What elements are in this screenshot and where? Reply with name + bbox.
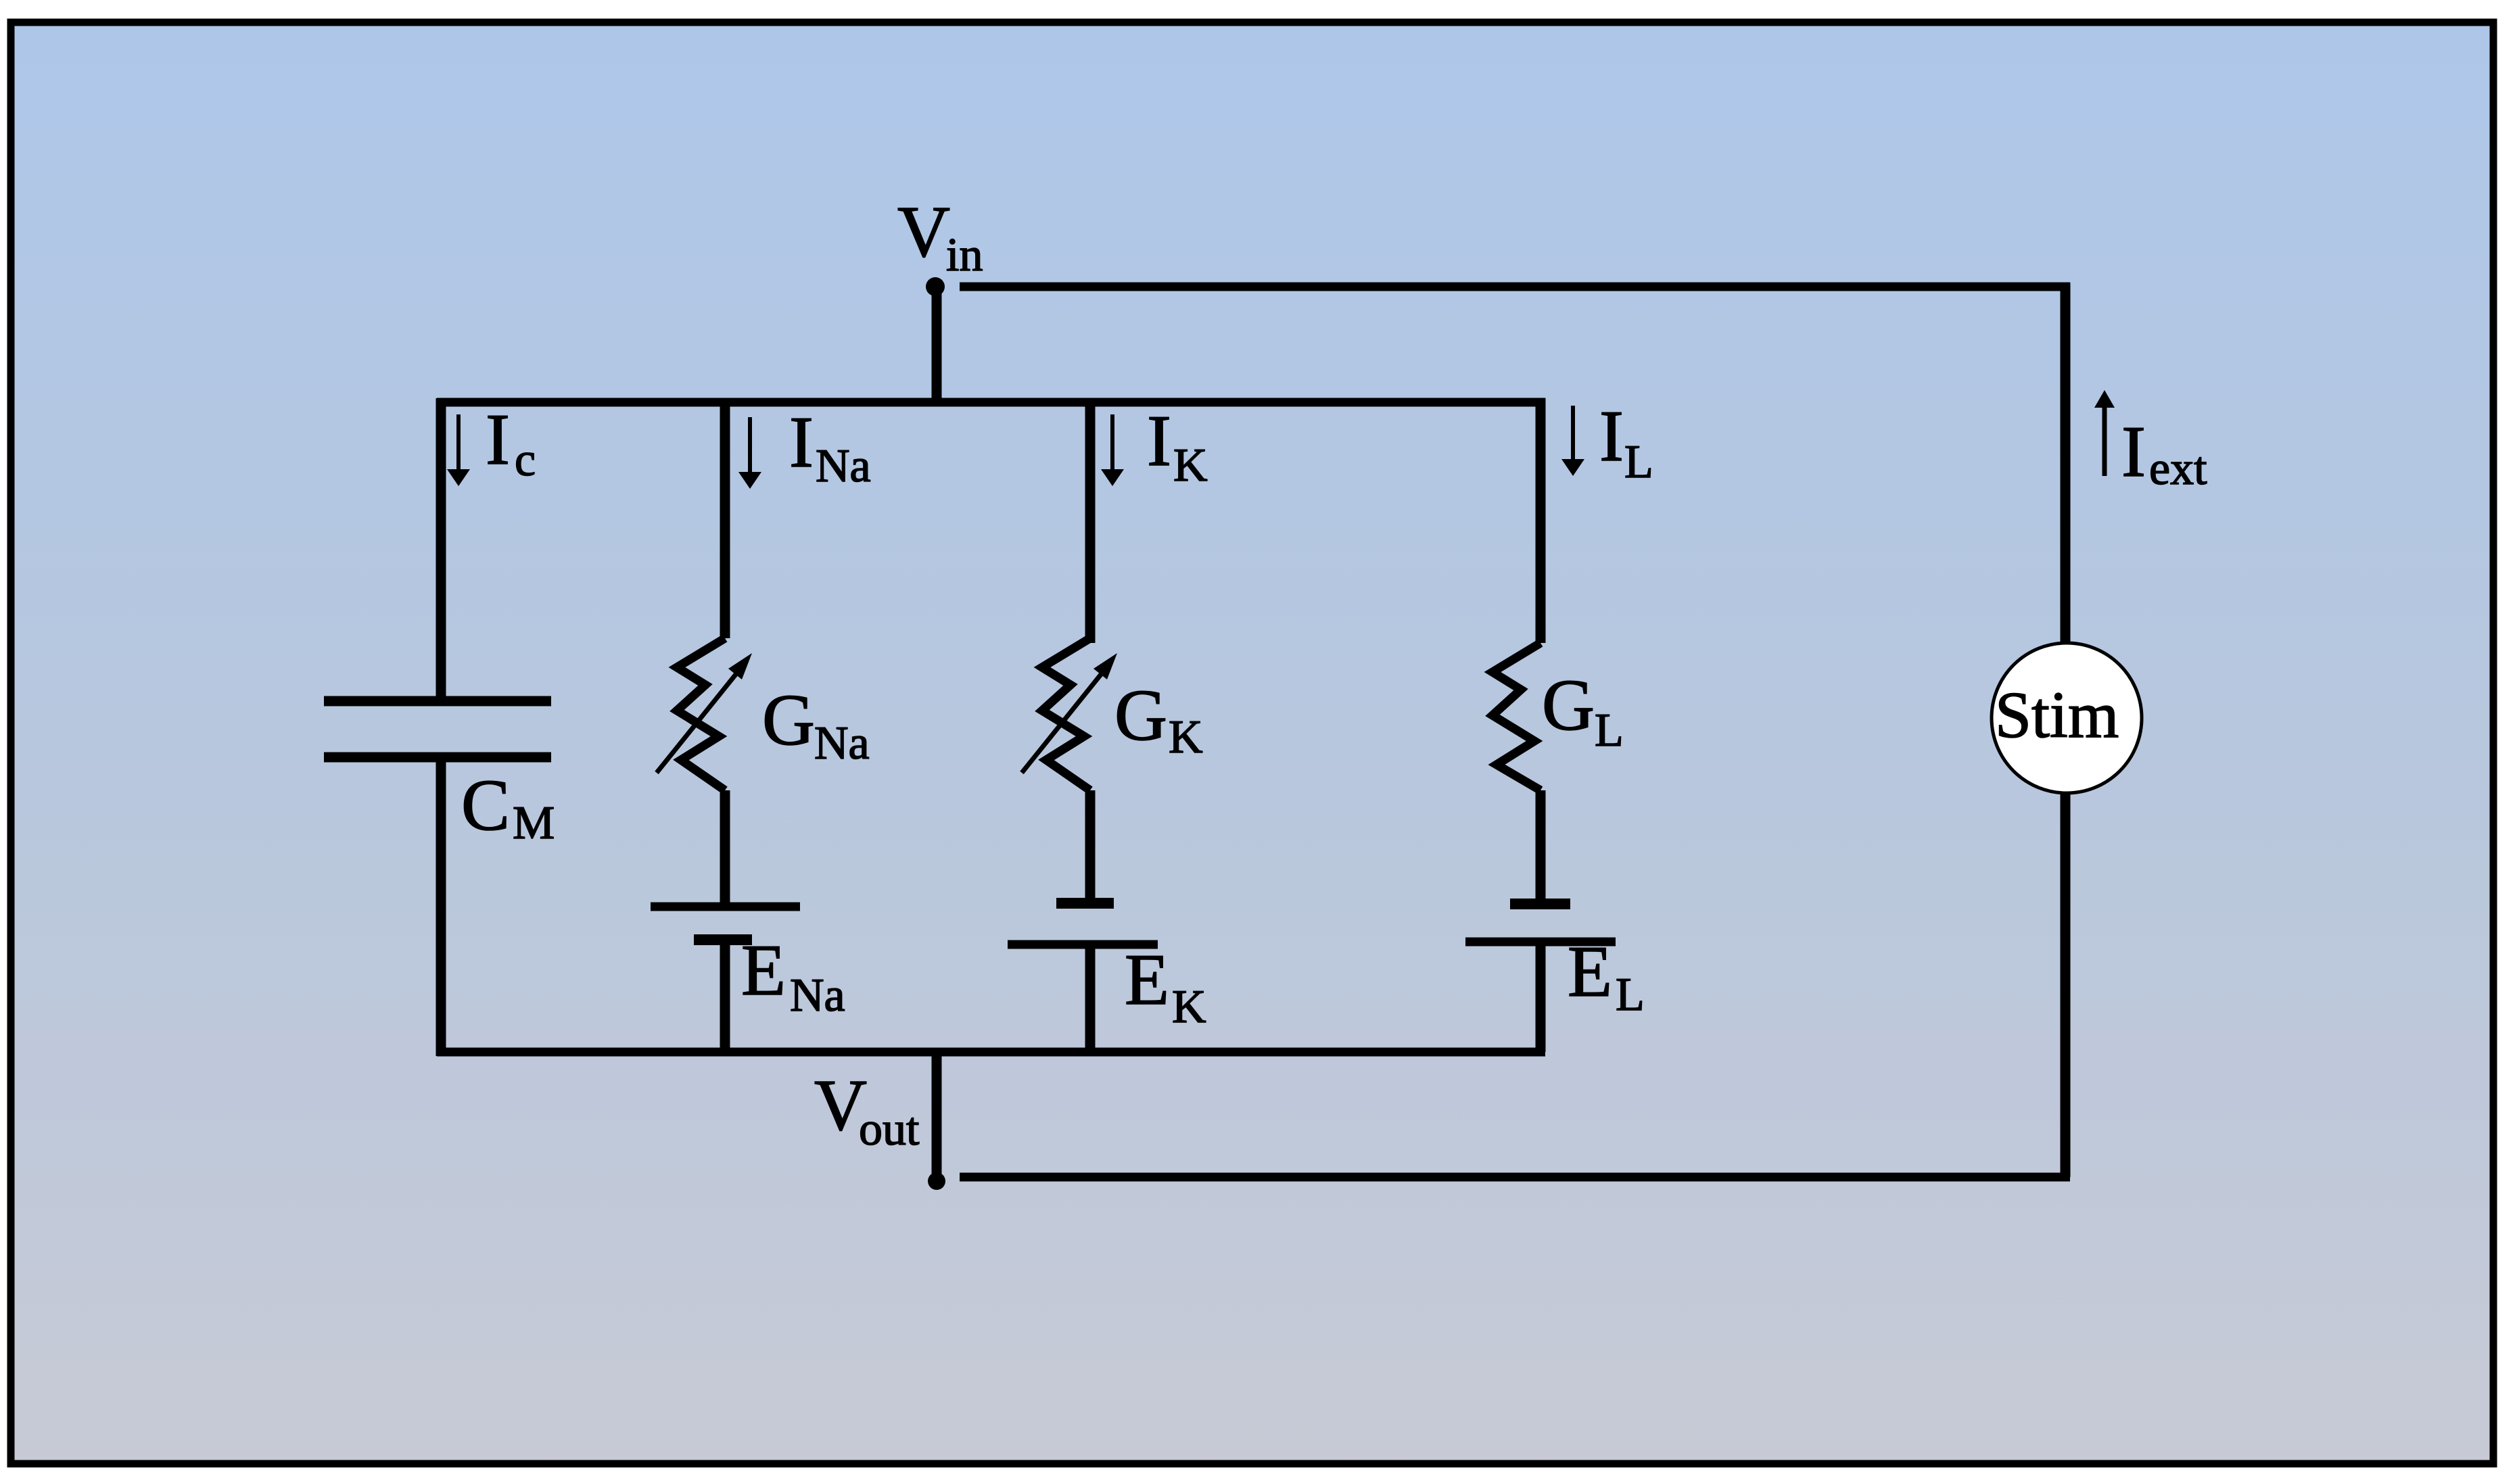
arrow IK [1101, 414, 1124, 486]
svg-text:out: out [859, 1103, 920, 1155]
svg-text:V: V [897, 192, 950, 272]
label Ic [486, 400, 536, 486]
node Vin [926, 277, 945, 296]
label GNa [762, 680, 870, 769]
label GL [1542, 665, 1624, 757]
label IL [1599, 396, 1653, 488]
resistor GL [1492, 643, 1541, 790]
svg-text:K: K [1169, 711, 1203, 763]
wire EK to bus [1085, 944, 1096, 1052]
battery EK long plate [1008, 940, 1158, 949]
svg-text:K: K [1172, 981, 1206, 1033]
label CM [461, 765, 555, 849]
svg-text:in: in [946, 229, 983, 281]
svg-text:C: C [461, 765, 510, 846]
battery EL long plate [1465, 938, 1616, 947]
svg-text:c: c [515, 434, 536, 486]
label INa [789, 402, 871, 492]
svg-text:ext: ext [2149, 443, 2207, 495]
svg-text:E: E [741, 930, 786, 1011]
svg-text:L: L [1624, 436, 1653, 488]
svg-text:L: L [1595, 704, 1624, 757]
label EL [1568, 932, 1645, 1021]
wire right side lower [2061, 792, 2071, 1177]
svg-text:E: E [1568, 932, 1612, 1012]
svg-text:L: L [1616, 969, 1645, 1021]
svg-text:Na: Na [816, 440, 871, 492]
svg-text:M: M [513, 797, 555, 849]
svg-text:Stim: Stim [1995, 679, 2119, 751]
wire EL to bus [1536, 942, 1546, 1052]
wire Vin to Stim (top) [960, 283, 2070, 291]
arrow INa [738, 417, 761, 489]
svg-text:K: K [1173, 439, 1208, 492]
battery EL short plate [1510, 899, 1570, 909]
wire GL to battery [1536, 790, 1546, 905]
svg-text:G: G [762, 680, 815, 761]
svg-text:G: G [1542, 665, 1595, 746]
source Stim [1992, 643, 2142, 793]
resistor GNa (variable) [657, 638, 752, 790]
label GK [1114, 675, 1203, 763]
wire GK to battery [1085, 790, 1096, 905]
wire capacitor branch upper [436, 398, 446, 701]
battery ENa short plate [694, 934, 752, 945]
wire right side upper [2061, 283, 2071, 644]
wire GK branch upper [1085, 398, 1096, 643]
capacitor CM top plate [324, 696, 551, 707]
wire GNa branch upper [720, 398, 730, 638]
svg-text:Na: Na [814, 717, 870, 769]
wire GL branch upper [1536, 398, 1546, 643]
label ENa [741, 930, 845, 1022]
svg-text:I: I [1147, 401, 1171, 481]
battery EK short plate [1056, 898, 1114, 909]
svg-text:Na: Na [790, 970, 845, 1022]
wire bottom bus [437, 1048, 1545, 1057]
label Vout [814, 1066, 920, 1155]
arrow Ic [447, 414, 470, 486]
wire Vin stub [932, 287, 942, 402]
svg-text:I: I [2121, 412, 2146, 492]
wire Vout to Stim (bottom) [960, 1173, 2070, 1182]
arrow Iext [2094, 390, 2115, 476]
resistor GK (variable) [1022, 638, 1117, 790]
capacitor CM bottom plate [324, 752, 551, 763]
wire ENa to bus [720, 940, 730, 1052]
wire top bus [437, 398, 1545, 407]
label Vin [897, 192, 983, 281]
label EK [1125, 940, 1206, 1033]
label Iext [2121, 412, 2207, 495]
svg-text:G: G [1114, 675, 1167, 756]
arrow IL [1561, 406, 1584, 476]
wire GNa to battery [720, 790, 730, 905]
svg-text:I: I [486, 400, 510, 480]
svg-text:E: E [1125, 940, 1169, 1020]
node Vout [928, 1172, 945, 1190]
svg-text:I: I [1599, 396, 1624, 477]
wire capacitor branch lower [436, 757, 446, 1056]
battery ENa long plate [651, 903, 800, 911]
svg-text:I: I [789, 402, 814, 483]
label IK [1147, 401, 1208, 492]
wire Vout stub [932, 1052, 942, 1181]
